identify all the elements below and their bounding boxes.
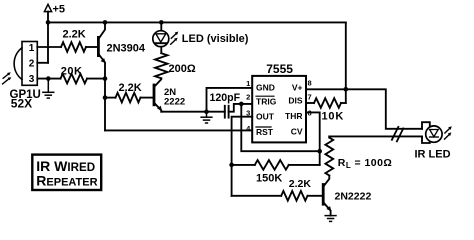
- wire TRIG down and right to THR: [241, 104, 319, 151]
- svg-text:V+: V+: [292, 83, 303, 93]
- resistor 150K (OUT to THR): [232, 164, 255, 166]
- node rail-LED branch: [159, 20, 164, 25]
- transistor Q3 2N2222: [323, 176, 371, 216]
- IR detector module GP1U 52X: [10, 42, 41, 111]
- wire RL top to IR LED cathode: [329, 135, 422, 137]
- svg-text:2: 2: [29, 59, 35, 70]
- resistor 20K: [61, 74, 88, 84]
- resistor 2.2K (Q1 emitter to Q2 base): [105, 97, 116, 99]
- node +5 rail junction: [46, 20, 51, 25]
- wire +5 to rail and down to pin2: [47, 12, 49, 63]
- svg-text:8: 8: [308, 78, 312, 87]
- wire rail right corner down to V+ and 10K: [345, 22, 347, 103]
- ground (Q3 emitter): [325, 216, 336, 222]
- svg-text:200Ω: 200Ω: [169, 63, 196, 75]
- transistor Q1 2N3904: [98, 22, 146, 130]
- node rail-Q1 collector: [103, 20, 108, 25]
- wire top +5 rail: [48, 21, 346, 23]
- wire 20K to Q1 emitter node: [87, 78, 105, 80]
- pin numbers U1: [246, 78, 312, 133]
- LED D2 IR LED: [426, 126, 442, 142]
- title box IR WIRED REPEATER: [32, 155, 101, 190]
- svg-text:7555: 7555: [266, 62, 293, 76]
- wire GP1U pin3: [37, 78, 60, 80]
- svg-text:2.2K: 2.2K: [119, 82, 142, 94]
- wire GP1U pin2 to +5 riser: [37, 62, 48, 64]
- cable break symbol: [392, 127, 403, 141]
- svg-text:IR LED: IR LED: [415, 149, 451, 161]
- svg-text:150K: 150K: [256, 173, 282, 185]
- svg-text:1: 1: [246, 79, 250, 88]
- node C1-TRIG: [239, 102, 244, 107]
- resistor 10K (DIS to +5): [306, 102, 314, 104]
- node emitter-20K: [103, 76, 108, 81]
- transistor Q2 2N2222: [154, 78, 185, 111]
- svg-text:20K: 20K: [61, 66, 83, 78]
- svg-text:GND: GND: [256, 83, 275, 93]
- svg-text:+5: +5: [53, 4, 66, 16]
- svg-text:52X: 52X: [11, 97, 32, 111]
- IR LED light arrows: [445, 126, 452, 139]
- svg-text:TRIG: TRIG: [256, 96, 277, 106]
- wire +5 branch to IR LED anode: [346, 89, 422, 129]
- resistor RL 100 ohm: [325, 138, 333, 176]
- wire 2.2K to Q1 base: [86, 46, 97, 48]
- svg-text:2N3904: 2N3904: [107, 43, 146, 55]
- IR LED hooks: [422, 122, 430, 129]
- node Q2 emitter / GND / C1: [204, 109, 209, 114]
- wire Q2 emitter to ground node: [161, 111, 206, 113]
- svg-text:CV: CV: [291, 127, 303, 137]
- svg-text:2.2K: 2.2K: [63, 28, 86, 40]
- capacitor C1 120pF: [207, 92, 253, 117]
- ground (GP1U pin3): [43, 79, 54, 99]
- wire OUT pin3 down: [232, 117, 253, 196]
- node V+/branch junction: [344, 87, 349, 92]
- resistor 2.2K (OUT to Q3 base): [232, 195, 282, 197]
- LED D1 visible: [153, 22, 169, 53]
- svg-text:2.2K: 2.2K: [289, 178, 312, 190]
- node emitter-2.2K: [103, 95, 108, 100]
- resistor 2.2K (pin1 to Q1 base): [61, 42, 86, 52]
- svg-text:THR: THR: [285, 111, 302, 121]
- IR input arrows: [3, 72, 12, 84]
- resistor 200 ohm: [155, 53, 167, 78]
- svg-text:LED (visible): LED (visible): [182, 33, 249, 45]
- wire Q1 emitter node to RST pin4: [105, 129, 252, 131]
- svg-text:2222: 2222: [164, 97, 185, 108]
- svg-text:DIS: DIS: [288, 95, 303, 105]
- svg-text:1: 1: [29, 43, 35, 54]
- svg-text:7: 7: [308, 92, 312, 101]
- svg-text:3: 3: [29, 74, 35, 85]
- svg-text:OUT: OUT: [256, 111, 275, 121]
- svg-text:2N2222: 2N2222: [335, 191, 372, 203]
- op-amp/timer U1 7555: [252, 62, 306, 142]
- svg-text:120pF: 120pF: [210, 92, 241, 104]
- svg-text:RST: RST: [256, 127, 274, 137]
- wire GP1U pin1 to R 2.2K: [37, 46, 61, 48]
- LED light arrows: [171, 32, 179, 45]
- wire V+ pin8 to +5: [306, 88, 346, 90]
- ground (timer): [201, 112, 212, 123]
- svg-text:2: 2: [246, 92, 250, 101]
- svg-text:10K: 10K: [322, 110, 345, 122]
- power +5 symbol: [44, 4, 65, 16]
- node OUT-150K: [229, 163, 234, 168]
- wire THR pin6 down: [306, 112, 320, 164]
- wire GND pin1 to ground node: [207, 88, 253, 112]
- node THR-TRIG: [317, 149, 322, 154]
- node pin3-ground: [46, 76, 51, 81]
